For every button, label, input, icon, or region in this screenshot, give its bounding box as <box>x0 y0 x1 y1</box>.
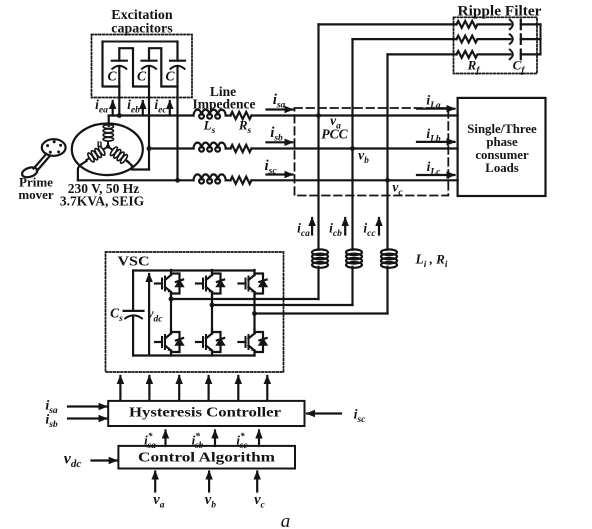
svg-text:Impedence: Impedence <box>193 97 256 112</box>
svg-text:Control Algorithm: Control Algorithm <box>138 451 275 466</box>
svg-text:iec: iec <box>154 97 167 116</box>
svg-text:PCC: PCC <box>321 127 348 142</box>
generator stator winding lower-left <box>84 142 111 164</box>
prime mover symbol <box>21 139 66 179</box>
control algorithm box U2 <box>118 446 295 469</box>
inductor Li phase a <box>312 249 328 267</box>
resistor Rf branch c <box>457 51 511 58</box>
IGBT S1 (leg 1 top) <box>155 270 183 297</box>
inductor Ls phase c <box>194 174 226 183</box>
current arrow i_cc <box>378 218 380 235</box>
current arrow i_ca <box>311 218 313 235</box>
svg-text:Li , Ri: Li , Ri <box>415 252 448 271</box>
ripple filter dotted box <box>454 17 538 73</box>
junction dot phase a / cap C1 <box>117 113 122 118</box>
IGBT S3 (leg 2 top) <box>196 270 224 297</box>
svg-text:ica: ica <box>297 221 310 240</box>
wire: phase a line <box>109 114 194 116</box>
svg-text:C: C <box>137 69 147 84</box>
gate pulse arrow 6 <box>266 376 268 401</box>
gate pulse arrow 1 <box>119 376 121 401</box>
svg-text:a: a <box>281 511 291 529</box>
svg-text:C: C <box>165 69 175 84</box>
input arrow i_sa to controller <box>68 405 107 407</box>
gate pulse arrow 3 <box>178 376 180 401</box>
wire: VSC output c <box>255 312 388 314</box>
current arrow i_Lc <box>417 174 455 176</box>
svg-text:icb: icb <box>329 221 342 240</box>
wire: leg 2 midsection <box>211 295 213 331</box>
input arrow v_a <box>154 472 156 492</box>
svg-text:va: va <box>153 492 164 511</box>
inductor Ls phase b <box>194 143 226 152</box>
ripple branch b wire <box>353 38 457 40</box>
junction dot riser c / phase c <box>385 178 390 183</box>
hysteresis controller box U1 <box>108 401 304 426</box>
current arrow i_sc <box>267 173 293 175</box>
capacitor C2 <box>142 61 157 170</box>
node n (star point) <box>106 145 110 149</box>
resistor Rf branch b <box>457 36 511 43</box>
resistor Rs phase a <box>231 112 252 119</box>
wire: generator phase-c exit to bottom line <box>78 161 87 180</box>
junction dot leg 2 output <box>210 303 215 308</box>
svg-text:vdc: vdc <box>64 451 82 471</box>
input arrow i_sb to controller <box>68 417 107 419</box>
svg-text:Hysteresis Controller: Hysteresis Controller <box>129 406 281 421</box>
wire: dc bus bottom rail <box>133 354 254 356</box>
svg-text:Ls: Ls <box>203 118 216 137</box>
svg-text:phase: phase <box>486 135 518 149</box>
current arrow i_eb <box>142 101 144 116</box>
gate pulse arrow 4 <box>208 376 210 401</box>
svg-text:ieb: ieb <box>127 97 140 116</box>
capacitor C1 <box>112 61 127 116</box>
inductor Li phase c <box>381 249 397 267</box>
wire: delta link C1-top to C2-bottom <box>119 48 149 86</box>
IGBT S6 (leg 2 bottom) <box>196 329 224 356</box>
svg-text:isc: isc <box>354 408 367 426</box>
wire: leg 1 midsection <box>170 295 172 331</box>
IGBT S4 (leg 1 bottom) <box>155 329 183 356</box>
wire: left vertical + bottom segment to cap C1 <box>103 42 120 87</box>
input arrow v_c <box>256 472 258 492</box>
svg-text:isa: isa <box>273 92 286 111</box>
current arrow i_ea <box>112 101 114 116</box>
input arrow i_sc to controller <box>307 412 341 414</box>
gate pulse arrow 2 <box>148 376 150 401</box>
wire: ripple filter star bus <box>540 24 542 54</box>
svg-text:Cs: Cs <box>110 306 123 325</box>
wire: delta link C2-top to C3-bottom <box>149 48 178 86</box>
reference arrow i*_sc <box>258 431 260 447</box>
svg-text:n: n <box>97 139 103 150</box>
wire: compensator riser a (ripple filter to VSC leg 1) <box>317 24 319 249</box>
svg-text:i*sc: i*sc <box>236 431 248 451</box>
wire: leg 3 midsection <box>253 295 255 331</box>
consumer loads box <box>458 98 546 196</box>
junction dot riser a / phase a <box>316 113 321 118</box>
gate pulse arrow 5 <box>237 376 239 401</box>
svg-text:icc: icc <box>363 221 376 240</box>
wire: VSC output a <box>171 298 319 300</box>
capacitor Cf branch a <box>510 20 541 30</box>
label Prime mover <box>18 175 54 203</box>
voltage arrow v_dc <box>148 274 150 354</box>
IGBT S2 (leg 3 bottom) <box>239 329 267 356</box>
junction dot leg 1 output <box>169 297 174 302</box>
reference arrow i*_sa <box>164 431 166 447</box>
svg-text:vb: vb <box>205 492 216 511</box>
reference arrow i*_sb <box>214 431 216 447</box>
inductor Li phase b <box>346 249 362 267</box>
svg-text:3.7KVA, SEIG: 3.7KVA, SEIG <box>60 194 145 209</box>
ripple branch c wire <box>388 53 457 55</box>
input arrow v_b <box>208 472 210 492</box>
current arrow i_ec <box>169 101 171 116</box>
wire: generator phase-b exit to riser <box>128 162 150 170</box>
svg-text:consumer: consumer <box>475 148 529 162</box>
junction dot phase b / cap C2 <box>147 146 152 151</box>
current arrow i_La <box>417 108 455 110</box>
svg-text:i*sb: i*sb <box>192 431 204 451</box>
wire: compensator riser b <box>351 39 353 250</box>
input arrow v_dc to control algorithm <box>92 459 117 461</box>
svg-text:vb: vb <box>358 148 369 167</box>
PCC dashed box <box>295 108 449 196</box>
junction dot leg 3 output <box>252 311 257 316</box>
wire: phase b line <box>149 147 194 149</box>
svg-text:i*sa: i*sa <box>144 431 156 451</box>
capacitor Cf branch b <box>510 34 541 44</box>
current arrow i_sb <box>267 141 293 143</box>
junction dot riser b / phase b <box>350 146 355 151</box>
IGBT S5 (leg 3 top) <box>239 270 267 297</box>
current arrow i_cb <box>344 218 346 235</box>
current arrow i_Lb <box>417 141 455 143</box>
wire: phase c line <box>78 179 194 181</box>
svg-text:isc: isc <box>264 158 277 177</box>
svg-text:C: C <box>107 69 117 84</box>
wire: dc bus top rail <box>133 269 254 271</box>
excitation capacitor dashed box <box>92 35 193 98</box>
wire: compensator riser c <box>386 54 388 249</box>
inductor Ls phase a <box>194 110 226 119</box>
label Line Impedence <box>193 84 256 112</box>
svg-text:mover: mover <box>18 187 54 202</box>
wire: capacitor top bus <box>103 41 178 43</box>
wire: VSC output b <box>212 304 353 306</box>
resistor Rf branch a <box>457 21 511 28</box>
resistor Rs phase c <box>231 177 252 184</box>
title: Excitation capacitors <box>111 8 173 37</box>
svg-text:iea: iea <box>95 97 108 116</box>
capacitor Cs <box>124 271 144 356</box>
generator SEIG body (ellipse) <box>72 124 143 176</box>
capacitor C3 <box>170 42 185 181</box>
ripple branch a wire <box>319 23 457 25</box>
svg-text:Loads: Loads <box>485 161 518 175</box>
resistor Rs phase b <box>231 145 252 152</box>
svg-text:vc: vc <box>254 492 265 511</box>
svg-text:Single/Three: Single/Three <box>467 122 537 136</box>
generator stator winding top <box>103 116 113 147</box>
capacitor Cf branch c <box>510 50 541 60</box>
current arrow i_sa <box>267 108 293 110</box>
junction dot phase c / cap C3 <box>175 178 180 183</box>
generator stator winding lower-right <box>105 143 132 167</box>
VSC dotted box <box>106 252 284 372</box>
svg-text:VSC: VSC <box>118 254 150 269</box>
svg-text:isb: isb <box>270 125 283 144</box>
